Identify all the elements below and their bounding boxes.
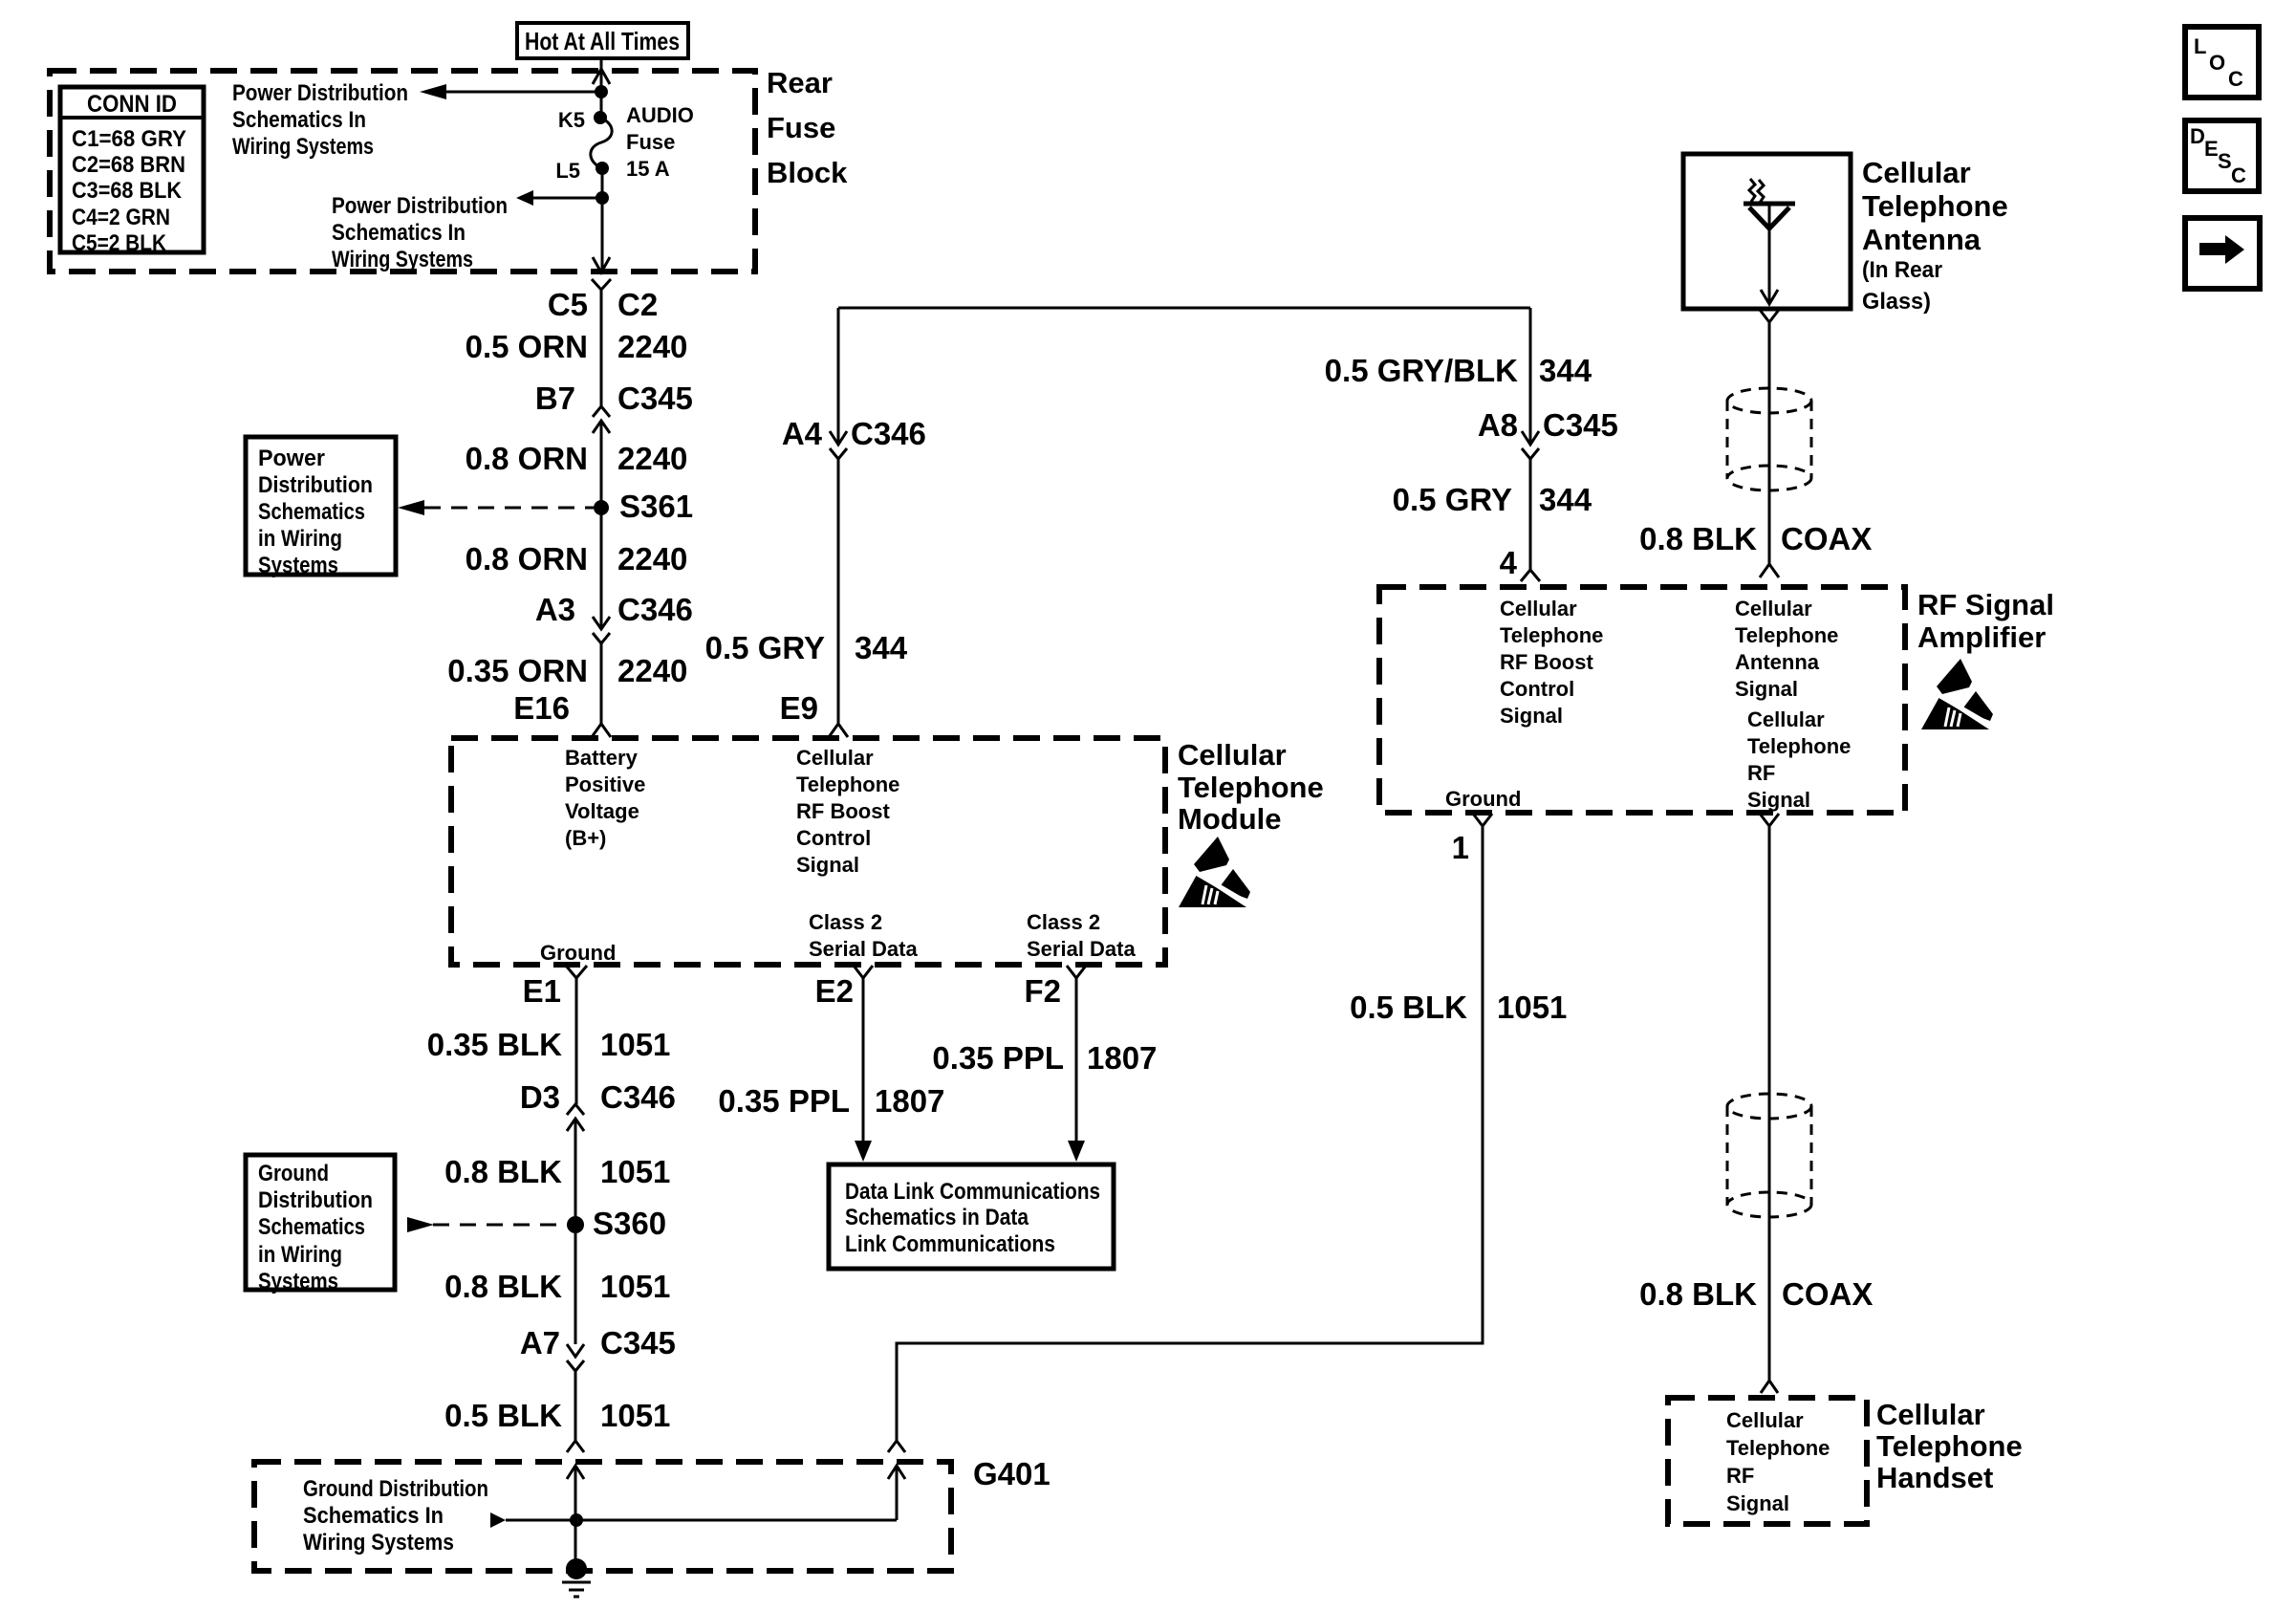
svg-text:Power: Power (258, 446, 325, 471)
svg-text:RF: RF (1747, 761, 1775, 785)
label: 0.8 BLK COAX (lower) (1639, 1276, 1873, 1312)
amplifier pin text: Cellular Telephone Antenna Signal (1735, 597, 1838, 701)
svg-text:RF Signal: RF Signal (1917, 588, 2054, 621)
label: Cellular Telephone Handset (1876, 1398, 2023, 1494)
module pin text: Battery Positive Voltage (B+) (565, 746, 645, 850)
label: A4 / C346 (782, 416, 926, 451)
label: 0.8 BLK COAX (upper) (1639, 521, 1872, 556)
module pin fork E9 (829, 724, 848, 737)
RF Signal Amplifier dashed box (1379, 587, 1905, 813)
svg-text:Telephone: Telephone (1747, 734, 1851, 758)
svg-text:D3: D3 (520, 1079, 560, 1115)
svg-text:Data Link Communications: Data Link Communications (845, 1179, 1100, 1205)
svg-text:1051: 1051 (600, 1154, 670, 1189)
svg-text:Telephone: Telephone (1876, 1429, 2023, 1463)
label: 0.8 ORN 2240 (below S361) (466, 541, 688, 577)
label: AUDIO Fuse 15 A (626, 103, 694, 181)
svg-text:Ground: Ground (540, 941, 616, 965)
svg-text:Rear: Rear (767, 66, 833, 99)
svg-text:G401: G401 (973, 1456, 1051, 1491)
svg-text:S: S (2218, 149, 2232, 173)
text: power distribution schematics 2 (332, 193, 508, 272)
svg-text:A3: A3 (535, 592, 575, 627)
amplifier pin text: Cellular Telephone RF Signal (1747, 707, 1851, 812)
label: A7 / C345 (520, 1325, 676, 1360)
svg-text:in Wiring: in Wiring (258, 526, 342, 552)
label: 0.35 BLK 1051 (427, 1027, 671, 1062)
module pin text: Class 2 Serial Data (E2) (809, 910, 918, 961)
svg-text:C346: C346 (600, 1079, 676, 1115)
connector arrow entering fuse block (up) (593, 69, 610, 84)
svg-text:Cellular: Cellular (1862, 156, 1971, 189)
label: 0.5 ORN 2240 (466, 329, 688, 364)
svg-text:F2: F2 (1024, 973, 1061, 1009)
svg-text:0.5 BLK: 0.5 BLK (1350, 990, 1467, 1025)
svg-text:Telephone: Telephone (1862, 189, 2008, 223)
svg-text:Cellular: Cellular (796, 746, 874, 770)
wire: amplifier coax to handset (1768, 826, 1771, 1381)
svg-text:0.8 BLK: 0.8 BLK (444, 1269, 562, 1304)
label: B7 / C345 (535, 381, 693, 416)
label: 0.8 BLK 1051 (below S360) (444, 1269, 670, 1304)
svg-text:(In Rear: (In Rear (1862, 257, 1942, 283)
label: 0.5 BLK 1051 (1350, 990, 1567, 1025)
svg-text:Schematics: Schematics (258, 1214, 365, 1240)
svg-text:Positive: Positive (565, 772, 645, 796)
text: power distribution schematics 1 (232, 80, 408, 160)
antenna output fork (1760, 310, 1779, 322)
svg-text:D: D (2190, 124, 2205, 148)
svg-text:Class 2: Class 2 (1027, 910, 1100, 934)
svg-text:Cellular: Cellular (1876, 1398, 1985, 1431)
svg-text:AUDIO: AUDIO (626, 103, 694, 127)
svg-text:Fuse: Fuse (626, 130, 675, 154)
label: 0.5 GRY 344 (1393, 482, 1592, 517)
module pin fork E2 (854, 966, 873, 978)
label: RF Signal Amplifier (1917, 588, 2054, 654)
svg-text:0.35 PPL: 0.35 PPL (718, 1083, 850, 1119)
label: A8 / C345 (1478, 407, 1618, 443)
svg-text:E9: E9 (780, 690, 818, 726)
svg-text:Cellular: Cellular (1735, 597, 1812, 620)
ESD symbol (amplifier) (1921, 659, 1993, 729)
svg-text:Fuse: Fuse (767, 111, 835, 144)
svg-text:0.5 GRY: 0.5 GRY (705, 630, 825, 665)
label: 0.35 PPL 1807 (E2) (718, 1083, 944, 1119)
svg-text:Systems: Systems (258, 553, 338, 578)
box: forward arrow (2185, 218, 2260, 289)
svg-text:Telephone: Telephone (1500, 623, 1603, 647)
wire: battery feed from Hot At All Times (601, 59, 602, 272)
svg-text:Schematics: Schematics (258, 499, 365, 525)
svg-text:Signal: Signal (1735, 677, 1798, 701)
antenna symbol (1744, 179, 1795, 304)
svg-text:C2: C2 (617, 287, 658, 322)
svg-text:Cellular: Cellular (1500, 597, 1577, 620)
svg-text:Ground: Ground (258, 1161, 329, 1186)
svg-text:344: 344 (1539, 482, 1592, 517)
svg-text:1051: 1051 (600, 1027, 670, 1062)
svg-text:0.35 PPL: 0.35 PPL (932, 1040, 1064, 1076)
handset input fork (1761, 1381, 1778, 1393)
svg-text:344: 344 (1539, 353, 1592, 388)
svg-text:C: C (2231, 163, 2246, 187)
reference arrow: power distribution 1 (420, 84, 601, 99)
arrowhead: ground distribution reference (407, 1217, 434, 1232)
ESD symbol (module) (1179, 837, 1250, 907)
reference arrow: power distribution 2 (516, 190, 602, 206)
wire: 0.35 ORN 2240 (600, 643, 603, 724)
svg-text:1807: 1807 (1087, 1040, 1157, 1076)
box: DESC (2185, 120, 2259, 191)
inline connector C346 at A3 (down) (593, 617, 610, 643)
svg-text:C5: C5 (548, 287, 588, 322)
label: 0.5 GRY 344 (E9 branch) (705, 630, 908, 665)
svg-text:Cellular: Cellular (1726, 1408, 1804, 1432)
box: Ground Distribution Schematics in Wiring Systems (246, 1155, 395, 1295)
svg-text:Cellular: Cellular (1178, 738, 1287, 772)
Cellular Telephone Module dashed box (451, 738, 1165, 965)
wire: 0.5 BLK 1051 (574, 1371, 577, 1441)
dashed reference line from ground distribution (433, 1224, 567, 1227)
svg-text:Serial Data: Serial Data (809, 937, 918, 961)
svg-text:Glass): Glass) (1862, 289, 1931, 315)
label: 0.35 ORN 2240 (447, 653, 687, 688)
label: D3 / C346 (520, 1079, 676, 1115)
svg-text:Telephone: Telephone (1726, 1436, 1830, 1460)
svg-text:C345: C345 (600, 1325, 676, 1360)
svg-text:K5: K5 (558, 108, 585, 132)
module pin text: Cellular Telephone RF Boost Control Signal (796, 746, 899, 877)
box: LOC (2185, 27, 2259, 98)
svg-text:A8: A8 (1478, 407, 1518, 443)
inline connector C345 at A7 (down) (567, 1344, 584, 1371)
arrowhead: power distribution reference (398, 500, 424, 515)
svg-text:2240: 2240 (617, 329, 687, 364)
svg-text:Ground: Ground (1445, 787, 1521, 811)
svg-text:1051: 1051 (600, 1269, 670, 1304)
svg-text:Signal: Signal (1500, 704, 1563, 728)
svg-text:Schematics in Data: Schematics in Data (845, 1205, 1029, 1230)
svg-text:C5=2 BLK: C5=2 BLK (72, 230, 167, 256)
svg-text:2240: 2240 (617, 541, 687, 577)
inline connector C346 at A4 (down) (830, 431, 847, 459)
svg-text:0.5 BLK: 0.5 BLK (444, 1398, 562, 1433)
svg-text:Block: Block (767, 156, 848, 189)
svg-text:Class 2: Class 2 (809, 910, 882, 934)
box: Cellular Telephone Antenna (1683, 154, 1851, 309)
svg-text:Wiring Systems: Wiring Systems (332, 247, 473, 272)
box: Hot At All Times (517, 23, 688, 58)
wire: branch to G401 from amplifier ground (897, 826, 1483, 1520)
label: C5 / C2 (548, 287, 658, 322)
wire: 0.8 BLK 1051 upper (574, 1119, 577, 1344)
splice S361 (594, 500, 609, 515)
svg-text:C: C (2228, 67, 2243, 91)
module pin fork E1 (566, 966, 587, 978)
G401 dashed box (254, 1462, 951, 1571)
svg-text:Control: Control (796, 826, 871, 850)
svg-text:C1=68 GRY: C1=68 GRY (72, 126, 186, 152)
svg-text:344: 344 (855, 630, 908, 665)
svg-text:0.8 ORN: 0.8 ORN (466, 441, 588, 476)
svg-text:Cellular: Cellular (1747, 707, 1825, 731)
svg-text:Signal: Signal (1747, 788, 1810, 812)
Rear Fuse Block dashed box (50, 71, 755, 272)
svg-text:2240: 2240 (617, 441, 687, 476)
handset pin text: Cellular Telephone RF Signal (1726, 1408, 1830, 1515)
wire: ground lead inside G401 (574, 1466, 577, 1569)
wire: E9 branch horizontal (838, 307, 1530, 310)
amplifier antenna input fork (1760, 564, 1779, 577)
wire: E1 ground 0.35 BLK (575, 978, 578, 1104)
svg-text:0.8 BLK: 0.8 BLK (1639, 1276, 1757, 1312)
svg-text:Module: Module (1178, 802, 1282, 836)
dashed reference line to S361 (424, 507, 594, 510)
inline connector C345 at A8 (down) (1522, 431, 1539, 459)
svg-text:C3=68 BLK: C3=68 BLK (72, 178, 183, 204)
svg-text:L5: L5 (555, 159, 580, 183)
wire: E2 class 2 serial data (862, 978, 865, 1142)
svg-text:Telephone: Telephone (1735, 623, 1838, 647)
svg-text:E1: E1 (523, 973, 561, 1009)
svg-text:Battery: Battery (565, 746, 639, 770)
svg-text:CONN ID: CONN ID (87, 91, 177, 118)
wire: F2 class 2 serial data (1075, 978, 1078, 1142)
svg-text:Serial Data: Serial Data (1027, 937, 1136, 961)
svg-text:Power Distribution: Power Distribution (232, 80, 408, 106)
text: ground distribution schematics in wiring systems (G401) (303, 1476, 488, 1556)
amplifier ground fork (pin 1) (1473, 814, 1492, 826)
CONN ID table (60, 87, 204, 256)
svg-text:Wiring Systems: Wiring Systems (303, 1530, 454, 1556)
svg-text:0.5 GRY/BLK: 0.5 GRY/BLK (1325, 353, 1518, 388)
svg-text:Control: Control (1500, 677, 1574, 701)
module pin fork F2 (1067, 966, 1086, 978)
svg-text:Amplifier: Amplifier (1917, 620, 2046, 654)
wire: antenna coax to amplifier (1768, 322, 1771, 564)
label: 0.5 GRY/BLK 344 (1325, 353, 1592, 388)
svg-text:A7: A7 (520, 1325, 560, 1360)
svg-text:RF Boost: RF Boost (1500, 650, 1593, 674)
svg-text:RF Boost: RF Boost (796, 799, 890, 823)
wire: 0.5 ORN 2240 (600, 290, 603, 406)
svg-text:Antenna: Antenna (1735, 650, 1820, 674)
svg-text:A4: A4 (782, 416, 823, 451)
svg-text:E2: E2 (815, 973, 854, 1009)
svg-text:0.5 GRY: 0.5 GRY (1393, 482, 1512, 517)
svg-text:(B+): (B+) (565, 826, 606, 850)
svg-text:Signal: Signal (1726, 1491, 1789, 1515)
inline connector C345 at B7 (up) (593, 406, 610, 433)
svg-text:1051: 1051 (1497, 990, 1567, 1025)
svg-text:Schematics In: Schematics In (303, 1503, 444, 1529)
wire: E9 branch vertical (837, 308, 840, 724)
Cellular Telephone Handset dashed box (1668, 1398, 1867, 1524)
svg-text:C345: C345 (617, 381, 693, 416)
connector into G401 (main wire) (567, 1441, 584, 1479)
svg-text:Systems: Systems (258, 1269, 338, 1295)
svg-text:Voltage: Voltage (565, 799, 639, 823)
svg-text:C2=68 BRN: C2=68 BRN (72, 152, 185, 178)
module pin text: Class 2 Serial Data (F2) (1027, 910, 1136, 961)
ground symbol G401 (562, 1558, 591, 1597)
svg-text:Schematics In: Schematics In (232, 107, 366, 133)
label: 0.35 PPL 1807 (F2) (932, 1040, 1157, 1076)
label: 0.8 ORN 2240 (above S361) (466, 441, 688, 476)
svg-text:O: O (2209, 51, 2225, 75)
splice S360 (567, 1216, 584, 1233)
amplifier RF output fork (1760, 814, 1779, 826)
svg-text:0.35 ORN: 0.35 ORN (447, 653, 588, 688)
label: Cellular Telephone Antenna (In Rear Glass) (1862, 156, 2008, 315)
svg-text:C346: C346 (617, 592, 693, 627)
fuse: AUDIO 15 A (591, 111, 612, 175)
svg-text:4: 4 (1500, 545, 1518, 580)
svg-text:Handset: Handset (1876, 1461, 1993, 1494)
svg-text:C345: C345 (1543, 407, 1618, 443)
module pin fork E16 (592, 724, 611, 737)
svg-text:RF: RF (1726, 1464, 1754, 1488)
svg-text:2240: 2240 (617, 653, 687, 688)
svg-text:S361: S361 (619, 489, 693, 524)
svg-text:1807: 1807 (875, 1083, 944, 1119)
svg-text:Schematics In: Schematics In (332, 220, 466, 246)
svg-text:Hot At All Times: Hot At All Times (525, 27, 680, 55)
svg-text:0.8 BLK: 0.8 BLK (1639, 521, 1757, 556)
svg-text:in Wiring: in Wiring (258, 1242, 342, 1268)
svg-text:0.35 BLK: 0.35 BLK (427, 1027, 562, 1062)
label: Rear Fuse Block (767, 66, 848, 189)
svg-text:Link Communications: Link Communications (845, 1231, 1055, 1257)
svg-text:15 A: 15 A (626, 157, 670, 181)
connector into G401 (amplifier ground branch) (888, 1441, 905, 1479)
connector: fuse block output C5/C2 (592, 257, 611, 290)
label: 0.5 BLK 1051 (444, 1398, 670, 1433)
wire: 0.8 ORN 2240 upper (600, 421, 603, 629)
svg-text:Power Distribution: Power Distribution (332, 193, 508, 219)
junction node: power distribution tap 1 (595, 85, 608, 98)
box: Data Link Communications (829, 1164, 1114, 1269)
svg-text:Distribution: Distribution (258, 1187, 373, 1213)
junction node on ground lead (570, 1513, 583, 1527)
svg-text:Antenna: Antenna (1862, 223, 1982, 256)
junction node: power distribution tap 2 (596, 191, 609, 205)
svg-text:COAX: COAX (1782, 1276, 1873, 1312)
arrowhead E2 to data link (855, 1141, 872, 1162)
svg-text:0.8 ORN: 0.8 ORN (466, 541, 588, 577)
coax inline connector (cylinder 1) (1727, 388, 1811, 490)
svg-text:COAX: COAX (1781, 521, 1872, 556)
svg-text:L: L (2194, 34, 2206, 58)
svg-text:0.5 ORN: 0.5 ORN (466, 329, 588, 364)
svg-text:Wiring Systems: Wiring Systems (232, 134, 374, 160)
svg-text:Signal: Signal (796, 853, 859, 877)
label: 0.8 BLK 1051 (above S360) (444, 1154, 670, 1189)
svg-text:B7: B7 (535, 381, 575, 416)
label: Cellular Telephone Module (1178, 738, 1324, 836)
arrowhead F2 to data link (1068, 1141, 1085, 1162)
svg-text:0.8 BLK: 0.8 BLK (444, 1154, 562, 1189)
svg-text:S360: S360 (593, 1206, 666, 1241)
svg-text:Telephone: Telephone (1178, 771, 1324, 804)
svg-text:E16: E16 (513, 690, 570, 726)
inline connector C346 at D3 (up) (567, 1104, 584, 1131)
svg-text:Distribution: Distribution (258, 472, 373, 498)
svg-text:1: 1 (1452, 830, 1469, 865)
svg-text:E: E (2204, 137, 2219, 161)
svg-text:C346: C346 (851, 416, 926, 451)
reference arrow inside G401 (490, 1512, 897, 1528)
coax inline connector (cylinder 2) (1727, 1094, 1811, 1217)
svg-text:Telephone: Telephone (796, 772, 899, 796)
amplifier pin text: Cellular Telephone RF Boost Control Signal (1500, 597, 1603, 728)
box: Power Distribution Schematics in Wiring Systems (246, 437, 396, 578)
svg-text:1051: 1051 (600, 1398, 670, 1433)
wire: RF boost control to amplifier (1529, 308, 1532, 570)
amplifier pin fork 4 (1521, 570, 1540, 581)
svg-text:C4=2 GRN: C4=2 GRN (72, 205, 170, 230)
svg-text:Ground Distribution: Ground Distribution (303, 1476, 488, 1502)
label: A3 / C346 (535, 592, 693, 627)
